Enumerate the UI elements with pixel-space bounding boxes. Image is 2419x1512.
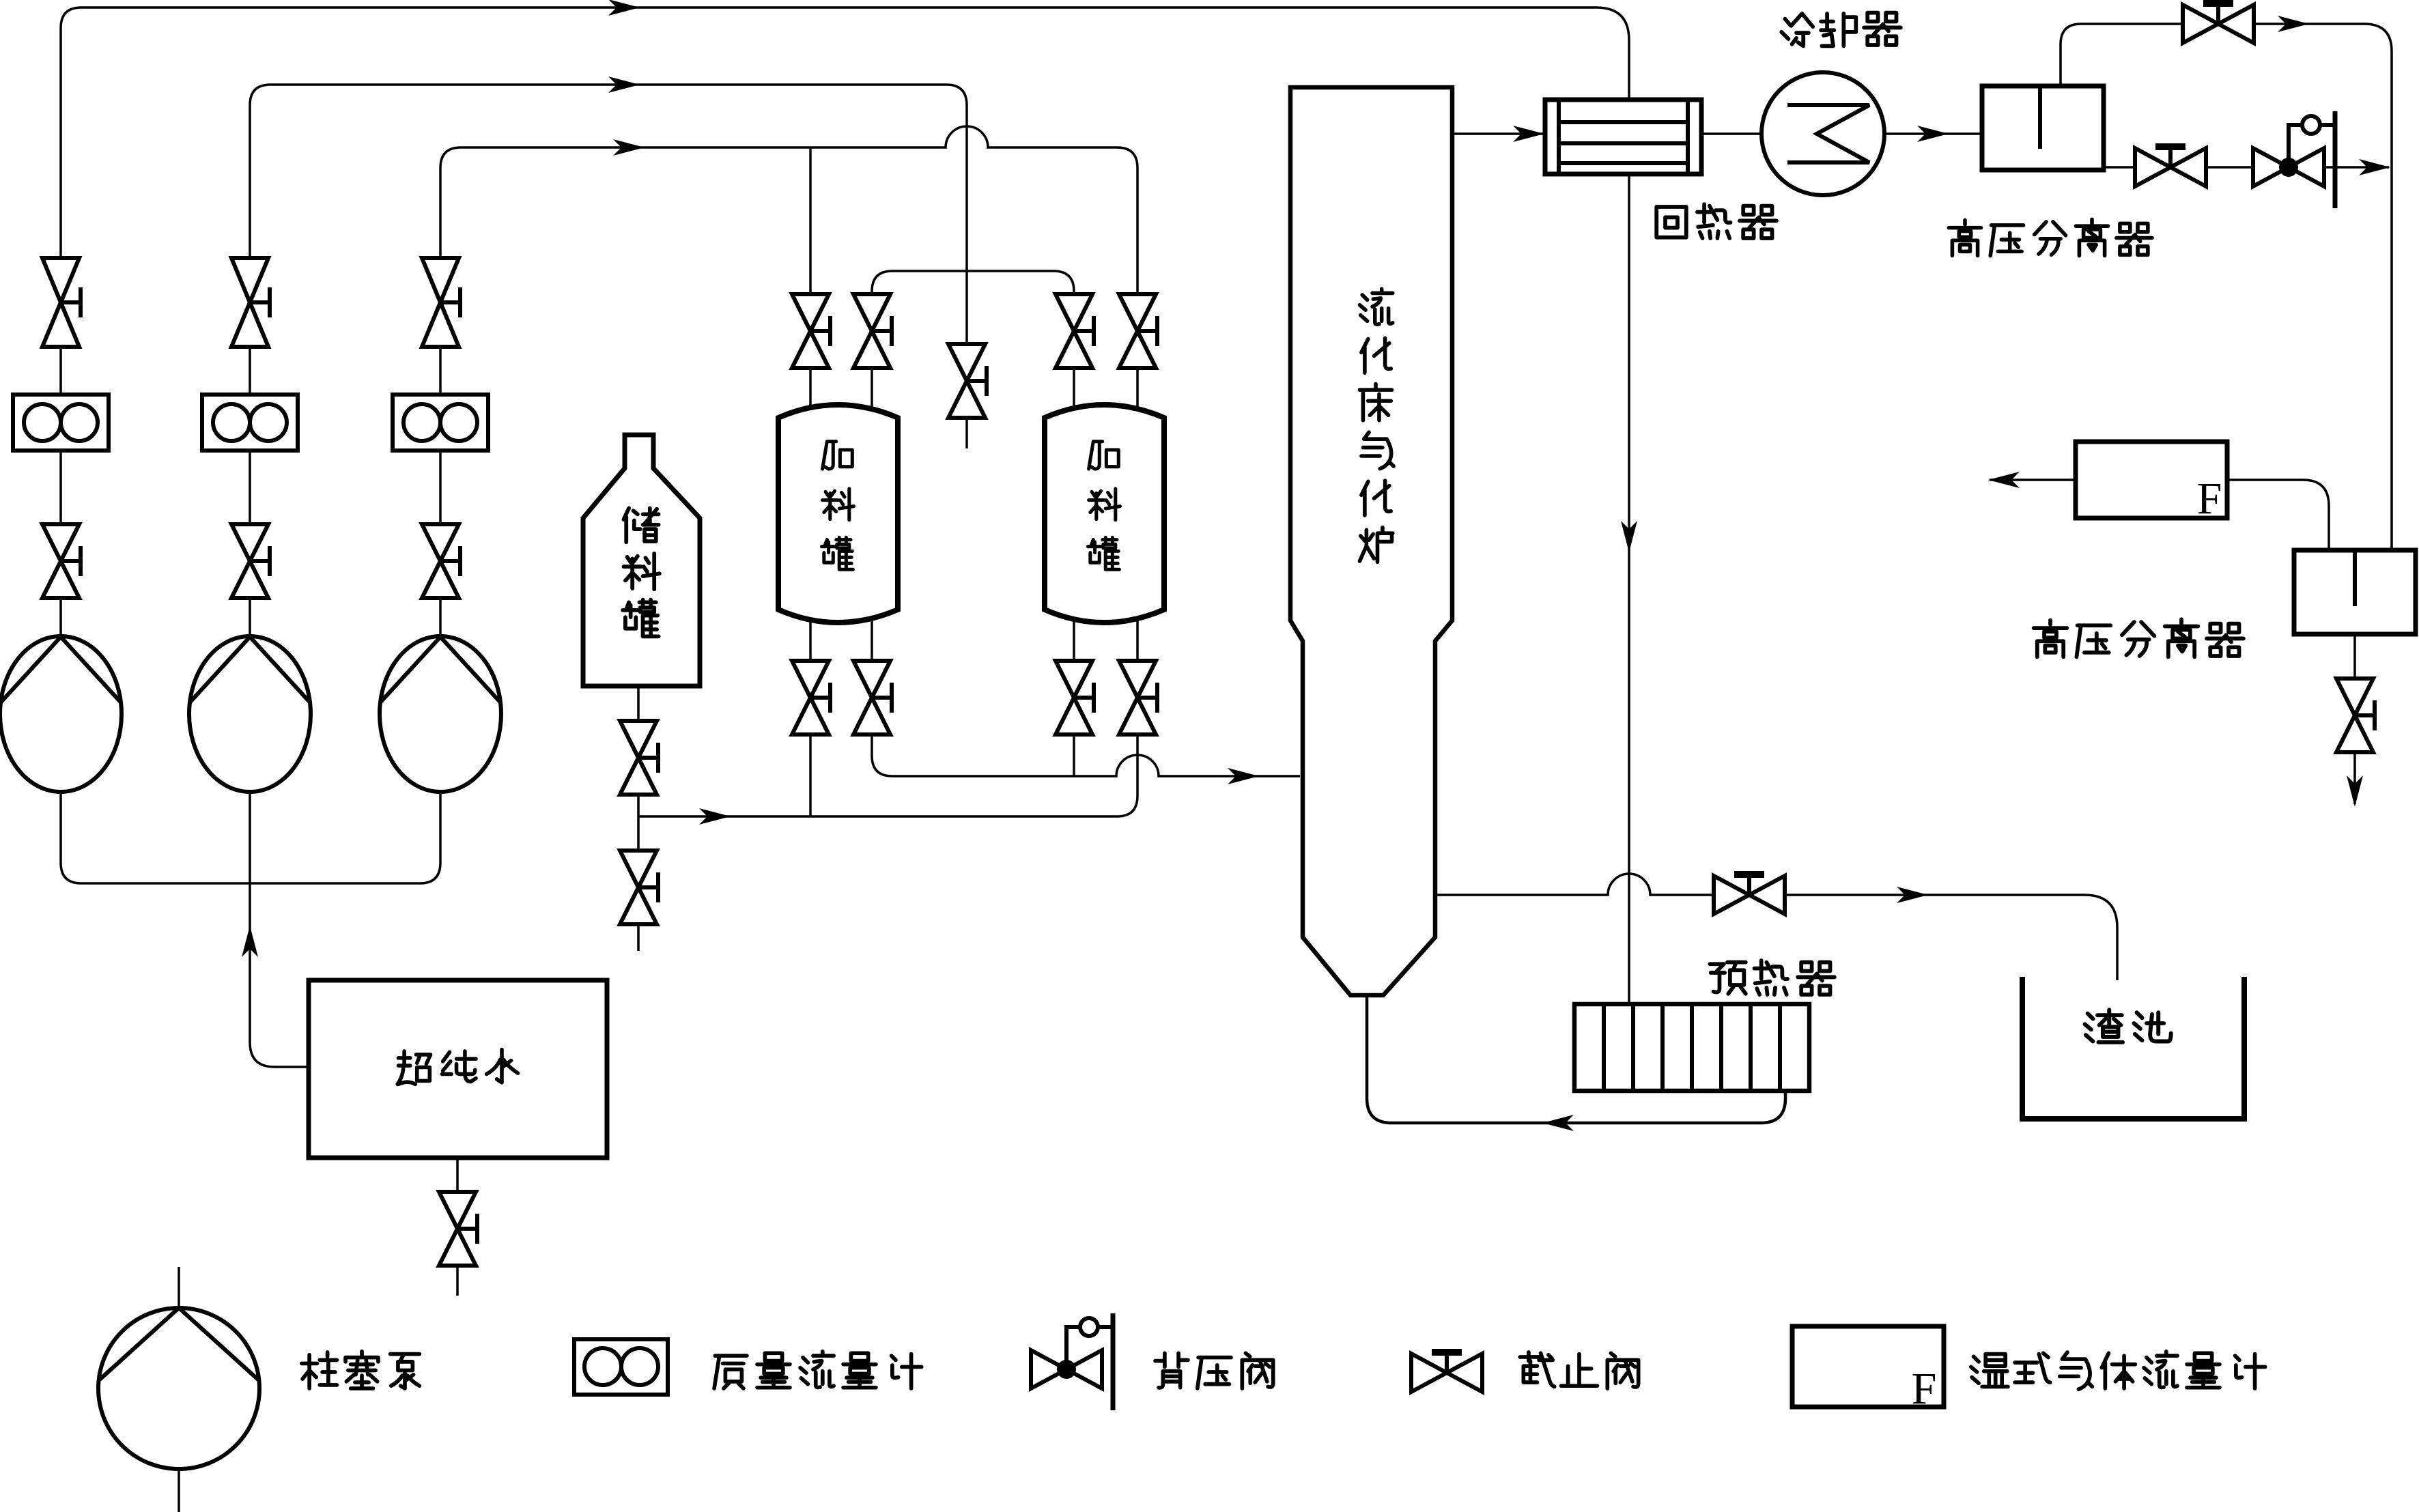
valve tank1 bottom-left [792,661,830,734]
arrow gas to regenerator [1513,126,1544,142]
vessel feed tank2 加料罐 [1045,405,1164,623]
arrow into separator1 [1917,126,1949,142]
label 高压分离器top [1949,219,2152,255]
label 湿式气体流量计 [1971,1352,2265,1389]
label 冷却器 [1781,13,1901,46]
arrow header2 [608,76,640,93]
valve separator1 liquid stop [2135,147,2206,186]
equipment regenerator 回热器 [1545,100,1701,174]
wire feed header B lower [638,734,1137,816]
valve gas header stop [2183,3,2254,43]
equipment wet gas flow meter F [2076,442,2227,518]
valve tank2 top-right [1119,294,1157,368]
arrow feed to gasifier [1228,768,1259,784]
wire gasifier top gas outlet [1452,132,1544,135]
svg-text:F: F [1912,1364,1937,1414]
meter mass flow meter1 [13,395,109,451]
arrow liquid to downcomer [2359,159,2390,175]
valve middle vent [948,344,987,418]
wire water tank drain [456,1157,459,1296]
valve branch2 lower [231,524,270,598]
valve water tank drain [439,1192,477,1266]
arrow gas header out [2278,16,2309,32]
wire pump2 header to middle valve [250,85,967,344]
valve branch1 upper [42,258,81,347]
wire branch2 segments and suction from water tank [250,347,309,1067]
label 流化床气化炉 [1359,289,1394,562]
wire drop to tank1 left top valve [809,147,812,294]
valve tank2 bottom-right [1119,661,1157,734]
arrow feed header B [699,808,731,825]
legend back pressure valve symbol [1031,1313,1113,1410]
arrow slag line [1897,887,1928,903]
wire feed-tank nozzles [810,367,1137,661]
arrow suction up [242,926,258,957]
equipment cooler 冷却器 [1762,72,1884,195]
label 质量流量计 [714,1352,922,1388]
wire preheater return to gasifier bottom [1367,995,1785,1123]
arrow flow meter vent [1988,472,2020,488]
equipment preheater 预热器 [1574,1004,1809,1091]
wire feed header A to gasifier with hop [872,734,1300,776]
wire regenerator to cooler [1701,132,1762,135]
label 超纯水 [397,1049,518,1084]
arrow header3 [613,139,645,156]
wire separator1 liquid line [2103,166,2389,169]
valve storage tank lower [620,851,658,924]
svg-text:F: F [2197,474,2222,524]
wire bridge between inner top valves [872,271,1074,294]
label 截止阀 [1520,1352,1638,1388]
legend plunger pump symbol [98,1308,259,1469]
valve slag line stop [1714,874,1785,914]
wire slag line with hop to slag pool [1434,874,2117,980]
arrow regenerator downline [1621,521,1637,552]
label 回热器 [1656,204,1777,238]
equipment hp separator2 高压分离器 [2294,550,2416,634]
valve tank2 top-left [1056,294,1094,368]
valve branch3 lower [422,524,460,598]
arrow separator2 drain down [2347,775,2363,807]
wire stub below middle valve [965,418,968,448]
wire pump3 header with hop to feed tank 2 right valve [440,126,1137,294]
label 加料罐2 [1088,442,1120,570]
valve storage tank upper [620,721,658,795]
wire legend pump line [178,1267,180,1512]
label 高压分离器right [2034,619,2244,657]
label 储料罐 [623,508,660,636]
wire tank2 bottom-left drop [1073,734,1075,776]
vessel feed tank1 加料罐 [778,405,898,623]
label 柱塞泵 [302,1352,420,1388]
meter mass flow meter2 [202,395,298,451]
valve branch3 upper [422,258,460,347]
wire separator2 drain [2353,634,2356,804]
valve tank2 bottom-left [1056,661,1094,734]
arrow preheater return [1542,1115,1574,1131]
wire separator1 gas line to right header [2061,24,2392,550]
valve separator2 drain [2336,679,2375,752]
valve branch2 upper [231,258,270,347]
wire storage tank column [637,688,640,951]
legend wet gas flow meter box [1792,1326,1944,1407]
wire tank1 bottom-left drop [809,734,812,816]
valve branch1 lower [42,524,81,598]
pump P3 [380,636,501,792]
vessel ultrapure water tank 超纯水 [309,980,607,1158]
arrow header1 [608,0,640,16]
equipment hp separator1 高压分离器 [1982,86,2104,170]
label 预热器 [1710,960,1834,995]
pump P2 [189,636,311,792]
vessel fluidized bed gasifier 流化床气化炉 [1290,87,1452,995]
wire pump1 to top header and down through regenerator to preheater [61,8,1629,1004]
valve tank1 top-left [792,294,830,368]
legend mass flow meter symbol [574,1339,668,1395]
label 渣池 [2085,1010,2171,1042]
wire flow meter vent [1990,479,2076,481]
valve tank1 bottom-right [853,661,892,734]
label 背压阀 [1155,1353,1273,1388]
wire cooler to separator1 [1884,132,1983,135]
vessel storage tank 储料罐 [583,435,700,686]
equipment slag pool 渣池 [2022,977,2244,1119]
legend stop valve symbol [1411,1352,1482,1392]
wire branch1 valve-meter-valve-pump and suction bus [61,347,440,883]
meter mass flow meter3 [393,395,488,451]
pump P1 [0,636,122,792]
valve back pressure [2253,111,2335,208]
label 加料罐1 [821,442,853,570]
valve tank1 top-right [853,294,892,368]
wire separator2 gas to flow meter [2228,480,2329,550]
